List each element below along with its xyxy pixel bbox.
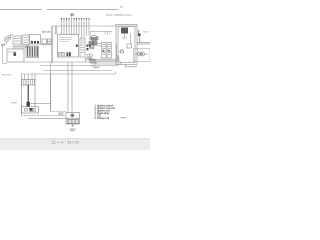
svg-text:COIL: COIL: [144, 54, 150, 56]
svg-text:6. Pickup coil: 6. Pickup coil: [95, 118, 110, 120]
svg-text:NO FUSE: NO FUSE: [2, 75, 12, 77]
svg-text:BK/W: BK/W: [12, 102, 17, 104]
svg-text:B+ REG: B+ REG: [9, 52, 17, 54]
svg-text:BR/W: BR/W: [91, 61, 96, 63]
svg-text:MOD. 4W8500 CE/A: MOD. 4W8500 CE/A: [106, 13, 132, 17]
svg-text:BK/Y: BK/Y: [91, 66, 96, 68]
svg-text:PLUG: PLUG: [143, 32, 149, 34]
